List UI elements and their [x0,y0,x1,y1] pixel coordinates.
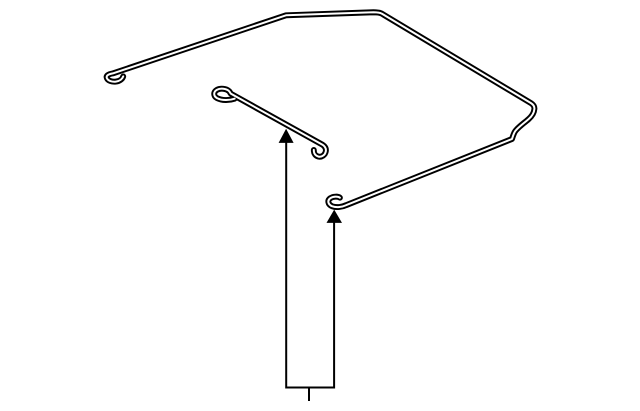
rod 1 black outline [107,12,535,207]
rod 2 black outline [214,89,326,157]
arrowhead 1 (points at rod 2) [279,129,294,143]
arrowhead 2 (points at rod 1 end hook) [327,210,343,223]
rod 1 white core [107,12,535,207]
rod 2 white core [214,89,326,157]
callout bracket: two shafts joined by horizontal bar with center tick [286,143,334,401]
